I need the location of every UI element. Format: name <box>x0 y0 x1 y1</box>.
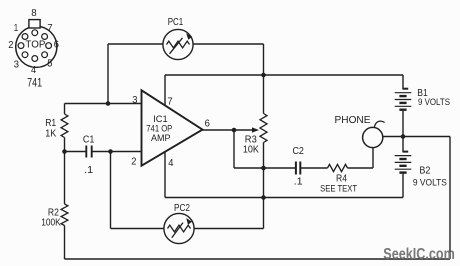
wire pin3 input <box>65 103 142 105</box>
pin label 6 <box>54 40 60 51</box>
potentiometer R3 bottom lead <box>263 143 265 198</box>
svg-text:7: 7 <box>47 23 53 34</box>
svg-text:6: 6 <box>205 118 211 129</box>
label R3 value 10K <box>243 145 259 156</box>
op-amp text 741 OP <box>146 123 172 133</box>
label C2 value .1 <box>294 176 303 187</box>
photocell PC1 arrow <box>170 33 193 54</box>
photocell PC2 arrow <box>172 218 192 238</box>
IC socket pin 8 hole <box>32 30 38 36</box>
label R1 value 1K <box>45 129 56 140</box>
junction output node <box>232 128 237 133</box>
op-amp pin 6 label <box>205 118 211 129</box>
resistor R1 bottom lead <box>64 138 66 152</box>
svg-text:3: 3 <box>132 95 138 106</box>
pin label 1 <box>14 23 19 34</box>
svg-text:PC1: PC1 <box>168 16 184 28</box>
pin label 3 <box>14 59 20 70</box>
label B1 value 9 VOLTS <box>418 97 450 108</box>
svg-text:SEE TEXT: SEE TEXT <box>320 184 357 195</box>
IC socket index tab <box>29 20 40 28</box>
wire pin4 to battery return <box>165 197 403 199</box>
potentiometer R3 <box>260 114 267 143</box>
capacitor C1 <box>86 146 91 158</box>
op-amp text AMP <box>151 133 171 143</box>
svg-text:1K: 1K <box>45 129 56 140</box>
label C2 <box>292 146 304 157</box>
svg-text:2: 2 <box>8 40 14 51</box>
svg-text:7: 7 <box>167 97 173 108</box>
svg-text:8: 8 <box>31 8 37 19</box>
wire B1 bottom lead <box>402 111 404 137</box>
IC socket pin 3 hole <box>22 52 28 58</box>
op-amp pin 2 label <box>131 157 137 168</box>
pin label 5 <box>47 59 53 70</box>
wire bottom rail <box>65 258 451 260</box>
watermark SeekIC.com <box>383 246 455 263</box>
wire pin4 drop <box>164 152 166 198</box>
pin label 7 <box>47 23 53 34</box>
svg-text:4: 4 <box>31 65 37 76</box>
battery B2 polarity mark <box>403 151 409 153</box>
label B2 <box>419 166 430 177</box>
wire PC1 left segment <box>108 43 163 45</box>
wire B1 top lead <box>402 75 404 89</box>
wire PC1 right segment <box>193 43 263 45</box>
wire B2 bottom lead <box>402 174 404 198</box>
battery B1 cells <box>395 93 412 110</box>
label R3 <box>245 135 257 146</box>
junction pin2 node <box>108 149 113 154</box>
svg-text:741 OP: 741 OP <box>146 123 172 133</box>
svg-text:6: 6 <box>54 40 60 51</box>
earphone hook <box>374 121 384 127</box>
potentiometer R3 top lead <box>263 75 265 114</box>
junction R3-C2 wire <box>261 166 266 171</box>
label PC1 <box>168 16 184 28</box>
label R4 <box>336 174 347 185</box>
junction pin3 node <box>106 101 111 106</box>
junction battery center tap <box>401 134 406 139</box>
capacitor C2 <box>296 162 300 175</box>
junction R1-R2-C1 <box>62 149 67 154</box>
IC socket pin 6 hole <box>46 43 52 49</box>
svg-text:741: 741 <box>27 78 42 90</box>
wire to C2 <box>234 167 295 169</box>
IC socket pin 5 hole <box>42 52 48 58</box>
photocell PC1 element <box>167 41 190 48</box>
svg-text:B2: B2 <box>419 166 430 177</box>
wire output pin6 <box>203 129 253 131</box>
svg-text:9 VOLTS: 9 VOLTS <box>413 177 447 188</box>
IC socket pin 1 hole <box>22 34 28 40</box>
svg-text:3: 3 <box>14 59 20 70</box>
resistor R2 <box>61 204 68 226</box>
IC socket pin 2 hole <box>18 43 24 49</box>
wire pin2 to PC2 drop <box>110 152 112 229</box>
wire B2 top lead <box>402 137 404 153</box>
IC socket pin 4 hole <box>32 56 38 62</box>
earphone PHONE body <box>363 127 383 147</box>
svg-text:1: 1 <box>14 23 19 34</box>
wire V+ rail <box>165 74 403 76</box>
battery B2 cells <box>395 156 412 173</box>
label R1 <box>45 118 56 129</box>
resistor R2 bottom lead <box>64 226 66 260</box>
IC socket pin 7 hole <box>42 34 48 40</box>
IC socket 741 top view body <box>16 26 57 67</box>
photocell PC2 body <box>164 213 194 243</box>
photocell PC1 body <box>163 29 193 59</box>
pin label 4 <box>31 65 37 76</box>
label B2 value 9 VOLTS <box>413 177 447 188</box>
svg-text:10K: 10K <box>243 145 259 156</box>
wire C1 left lead <box>65 151 87 153</box>
wire PC1 corner down <box>263 44 265 75</box>
wire left column vertical <box>107 44 109 104</box>
resistor R4 <box>328 164 348 171</box>
pin label 8 <box>31 8 37 19</box>
wire pin2 input <box>92 151 142 153</box>
label B1 <box>417 88 428 99</box>
wire PC2 right segment <box>194 228 263 230</box>
svg-text:PC2: PC2 <box>174 202 190 214</box>
label R4 value SEE TEXT <box>320 184 357 195</box>
wire phone riser <box>372 147 374 168</box>
pin label 2 <box>8 40 14 51</box>
photocell PC2 element <box>168 225 191 232</box>
junction rail-R3 top <box>261 73 266 78</box>
wire pin7 riser <box>164 75 166 106</box>
label R2 <box>48 207 59 218</box>
svg-text:AMP: AMP <box>151 133 171 143</box>
svg-text:9 VOLTS: 9 VOLTS <box>418 97 450 108</box>
resistor R2 top lead <box>64 152 66 205</box>
svg-text:100K: 100K <box>41 218 61 229</box>
svg-text:.1: .1 <box>84 165 93 176</box>
IC socket label 741 <box>27 78 42 90</box>
wire right edge <box>449 137 451 260</box>
svg-text:R1: R1 <box>45 118 56 129</box>
battery B1 polarity mark <box>403 88 409 90</box>
svg-text:2: 2 <box>131 157 137 168</box>
op-amp IC1 triangle <box>142 90 203 165</box>
svg-text:SeekIC.com: SeekIC.com <box>383 246 455 263</box>
wire output drop <box>233 130 235 168</box>
wire C2 to R4 <box>301 167 328 169</box>
op-amp pin 3 label <box>132 95 138 106</box>
svg-text:TOP: TOP <box>25 39 45 50</box>
wire PC2 left segment <box>111 228 165 230</box>
svg-text:C1: C1 <box>83 135 95 146</box>
label PHONE <box>335 115 371 126</box>
svg-text:4: 4 <box>168 158 174 169</box>
wire phone to battery tap <box>383 136 450 138</box>
label R2 value 100K <box>41 218 61 229</box>
wire PC2 up to return <box>263 198 265 229</box>
label C1 <box>83 135 95 146</box>
IC socket label TOP <box>25 39 45 50</box>
svg-text:PHONE: PHONE <box>335 115 371 126</box>
svg-text:.1: .1 <box>294 176 303 187</box>
label PC2 <box>174 202 190 214</box>
op-amp pin 7 label <box>167 97 173 108</box>
junction return-PC2 <box>261 195 266 200</box>
label C1 value .1 <box>84 165 93 176</box>
resistor R1 top lead <box>64 104 66 115</box>
wire R4 to phone <box>348 167 374 169</box>
resistor R1 <box>61 114 68 138</box>
op-amp text IC1 <box>153 114 168 124</box>
op-amp pin 4 label <box>168 158 174 169</box>
svg-text:5: 5 <box>47 59 53 70</box>
potentiometer R3 wiper arrow <box>252 127 259 132</box>
svg-text:C2: C2 <box>292 146 304 157</box>
